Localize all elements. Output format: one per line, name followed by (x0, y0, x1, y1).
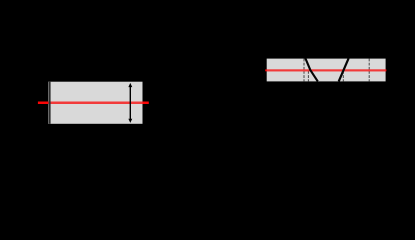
beam axis right (red line) (265, 69, 386, 71)
ray down-right (kinked at axis) (305, 58, 317, 81)
ray up-right (339, 58, 349, 81)
beam axis left (red line) (38, 102, 149, 105)
beam axis right inside medium (softened red) (267, 69, 386, 71)
dashed marker x=369.2 (368, 59, 370, 82)
rod left end facet (dark line) (49, 82, 51, 124)
beam axis left inside medium (softened red) (48, 102, 142, 105)
slab (right gray medium) (267, 59, 386, 82)
dashed marker x=343.3 (342, 71, 344, 81)
dashed marker x=308.4 (307, 71, 309, 81)
dashed marker x=304 (303, 59, 305, 82)
diameter arrow (128, 83, 132, 123)
laser rod (left gray medium) (48, 82, 142, 124)
